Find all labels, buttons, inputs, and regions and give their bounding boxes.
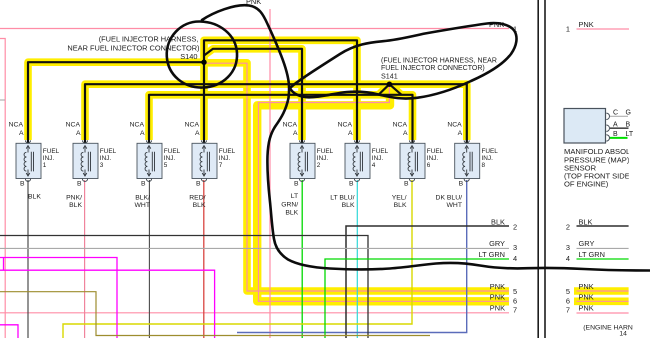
wire PNK highlight right page row6 xyxy=(574,297,629,305)
arrow down xyxy=(148,170,150,175)
coil xyxy=(145,152,147,171)
wire PNK/BLK injector3 B wire xyxy=(84,180,86,338)
svg-text:BLK: BLK xyxy=(193,202,206,209)
svg-text:RED/: RED/ xyxy=(189,195,205,202)
svg-text:4: 4 xyxy=(513,254,517,263)
pin B notch xyxy=(409,179,414,182)
wire LT BLU/BLK injector4 B wire xyxy=(356,180,358,338)
wire PNK highlight S140 up to injector4 xyxy=(204,40,357,140)
arrow up xyxy=(411,147,413,152)
svg-text:3: 3 xyxy=(100,162,104,169)
wire BLK MAP pin A xyxy=(610,127,629,129)
pin B notch xyxy=(82,179,87,182)
svg-text:PNK: PNK xyxy=(490,282,505,291)
svg-text:NEAR FUEL INJECTOR CONNECTOR): NEAR FUEL INJECTOR CONNECTOR) xyxy=(67,43,199,52)
arrow down xyxy=(203,170,205,175)
scan edge mask right page xyxy=(629,145,650,190)
svg-text:PNK/: PNK/ xyxy=(66,195,82,202)
wire LT GRN row 4 right page xyxy=(577,258,629,260)
fuel injector 8 xyxy=(447,122,498,188)
svg-text:BLK: BLK xyxy=(394,202,407,209)
svg-text:14: 14 xyxy=(619,330,627,337)
svg-text:PNK: PNK xyxy=(490,304,505,313)
wire PNK highlight S141 drop to row6 xyxy=(257,88,509,301)
wire PNK highlight S141 splice diagonals xyxy=(379,84,402,95)
svg-text:A: A xyxy=(19,130,24,137)
wire PNK from S141 to row 6 xyxy=(259,86,510,301)
fuel injector 2 xyxy=(283,122,334,188)
svg-text:B: B xyxy=(141,181,146,188)
arrow up xyxy=(356,147,358,152)
wire PNK row 7 right page xyxy=(577,312,629,314)
wire magenta H3 bottom left corner xyxy=(0,325,18,338)
svg-text:NCA: NCA xyxy=(185,122,200,129)
svg-text:A: A xyxy=(195,130,200,137)
svg-text:B: B xyxy=(459,181,464,188)
wire PNK highlight injector5 bus to injector8 xyxy=(149,95,413,140)
pin B notch xyxy=(464,179,469,182)
svg-text:B: B xyxy=(349,181,354,188)
wire PNK from S140 to row 5 xyxy=(204,63,509,291)
wire GRY row 3 left page xyxy=(0,247,509,249)
wire RED/BLK injector7 B wire xyxy=(203,180,205,338)
wire DK BLU/WHT injector8 B wire xyxy=(237,180,467,333)
pin A notch xyxy=(354,140,359,143)
svg-text:INJ.: INJ. xyxy=(219,155,231,162)
svg-text:NCA: NCA xyxy=(283,122,298,129)
pin B notch xyxy=(146,179,151,182)
svg-text:INJ.: INJ. xyxy=(427,155,439,162)
wire GRY stub left edge xyxy=(0,99,5,101)
wire GRY MAP pin C xyxy=(610,115,628,117)
arrow up xyxy=(301,147,303,152)
arrow down xyxy=(84,170,86,175)
svg-text:5: 5 xyxy=(566,287,570,296)
wire PNK left feed vertical with stub xyxy=(0,39,5,338)
wire YEL/BLK injector6 B wire xyxy=(63,180,412,338)
annotation long squiggle tail across page xyxy=(202,5,650,270)
wire trace injector3 to S141 xyxy=(85,84,467,143)
svg-text:PNK: PNK xyxy=(579,20,594,29)
pin A notch xyxy=(82,140,87,143)
pin B notch xyxy=(354,179,359,182)
svg-text:5: 5 xyxy=(164,162,168,169)
svg-text:B: B xyxy=(20,181,25,188)
wire trace S141 splice diagonals xyxy=(379,84,402,95)
svg-text:B: B xyxy=(404,181,409,188)
coil xyxy=(353,152,355,171)
core lines xyxy=(470,152,472,172)
wire LT GRN/BLK injector2 B wire xyxy=(301,180,303,338)
svg-text:BLK: BLK xyxy=(342,202,355,209)
pin A notch xyxy=(464,140,469,143)
svg-text:INJ.: INJ. xyxy=(100,155,112,162)
coil xyxy=(298,152,300,171)
wire BLK row 2 right page xyxy=(577,225,629,227)
svg-text:BLK: BLK xyxy=(69,202,82,209)
core lines xyxy=(415,152,417,172)
coil xyxy=(81,152,83,171)
svg-text:5: 5 xyxy=(513,287,517,296)
coil xyxy=(24,152,26,171)
pin B notch xyxy=(201,179,206,182)
pin A notch xyxy=(25,140,30,143)
MAP sensor box xyxy=(564,109,610,144)
wire PNK row 1 left page xyxy=(0,28,509,30)
svg-text:PNK: PNK xyxy=(490,293,505,302)
svg-text:YEL/: YEL/ xyxy=(392,195,407,202)
wire magenta link vertical left edge xyxy=(3,258,5,271)
MAP pin B arc xyxy=(606,135,609,141)
svg-text:NCA: NCA xyxy=(338,122,353,129)
annotation loop around S141 label xyxy=(290,23,517,98)
pin B notch xyxy=(299,179,304,182)
arrow down xyxy=(466,170,468,175)
fuel injector 7 xyxy=(185,122,236,188)
svg-text:3: 3 xyxy=(513,243,517,252)
svg-text:GRY: GRY xyxy=(489,239,505,248)
fuel injector 6 xyxy=(393,122,444,188)
coil xyxy=(200,152,202,171)
wire BLK horizontal y235 with drop xyxy=(0,236,368,338)
svg-text:A: A xyxy=(403,130,408,137)
svg-text:LT GRN: LT GRN xyxy=(579,250,605,259)
page border double line xyxy=(538,0,545,338)
svg-text:6: 6 xyxy=(566,296,570,305)
svg-text:4: 4 xyxy=(372,162,376,169)
svg-text:B: B xyxy=(626,122,631,129)
annotation ellipse around S140 xyxy=(167,21,237,87)
pin A notch xyxy=(299,140,304,143)
coil xyxy=(408,152,410,171)
svg-text:C: C xyxy=(613,110,618,117)
svg-text:LT GRN: LT GRN xyxy=(479,250,505,259)
core lines xyxy=(360,152,362,172)
coil xyxy=(463,152,465,171)
wire PNK row 1 right page xyxy=(577,28,630,30)
svg-text:LT: LT xyxy=(291,193,298,200)
arrow down xyxy=(301,170,303,175)
pin B notch xyxy=(25,179,30,182)
svg-text:BLK: BLK xyxy=(285,210,298,217)
svg-text:A: A xyxy=(458,130,463,137)
svg-text:BLK/: BLK/ xyxy=(135,195,150,202)
wire PNK highlight S140 diagonal to injector2 xyxy=(204,49,302,140)
wire PNK row 5 right page xyxy=(577,290,629,292)
svg-text:A: A xyxy=(140,130,145,137)
wire PNK row 7 left page xyxy=(0,312,509,314)
arrow down xyxy=(356,170,358,175)
svg-text:NCA: NCA xyxy=(447,122,462,129)
pin A notch xyxy=(409,140,414,143)
core lines xyxy=(88,152,90,172)
svg-text:(FUEL INJECTOR HARNESS, NEAR: (FUEL INJECTOR HARNESS, NEAR xyxy=(381,58,497,65)
svg-text:4: 4 xyxy=(566,254,570,263)
core lines xyxy=(31,152,33,172)
svg-text:7: 7 xyxy=(566,305,570,314)
svg-text:PNK: PNK xyxy=(579,293,594,302)
node S141 splice dot xyxy=(387,82,392,87)
svg-text:2: 2 xyxy=(566,222,570,231)
svg-text:S140: S140 xyxy=(180,52,197,61)
svg-text:7: 7 xyxy=(513,305,517,314)
svg-text:GRY: GRY xyxy=(579,239,595,248)
freehand pen annotations xyxy=(167,5,650,270)
wire PNK highlight injector1 riser and bus to S140 xyxy=(28,62,204,140)
svg-text:(FUEL INJECTOR HARNESS,: (FUEL INJECTOR HARNESS, xyxy=(99,35,199,44)
wire GRY row 3 right page xyxy=(577,247,629,249)
svg-text:B: B xyxy=(294,181,299,188)
pin A notch xyxy=(201,140,206,143)
svg-text:BLK: BLK xyxy=(491,218,505,227)
highlighter group xyxy=(28,40,629,301)
svg-text:B: B xyxy=(196,181,201,188)
wire DK YEL olive run xyxy=(0,292,430,336)
wire PNK highlight injector7 riser xyxy=(200,62,208,140)
wire PNK highlight right page row5 xyxy=(574,287,629,295)
pin A notch xyxy=(146,140,151,143)
svg-text:A: A xyxy=(348,130,353,137)
fuel injector 4 xyxy=(338,122,389,188)
wire PNK highlight S140 drop to row5 xyxy=(206,63,509,291)
svg-text:6: 6 xyxy=(427,162,431,169)
wire magenta H1 with drop at x117 xyxy=(0,258,117,338)
arrow up xyxy=(84,147,86,152)
wire trace S140 diagonal branch to injector2 xyxy=(204,49,302,143)
svg-text:6: 6 xyxy=(513,296,517,305)
svg-text:GRN/: GRN/ xyxy=(281,202,298,209)
svg-text:NCA: NCA xyxy=(9,122,24,129)
wire BLK injector1 B wire xyxy=(27,180,29,338)
svg-text:LT BLU/: LT BLU/ xyxy=(330,195,354,202)
wire PNK top vertical from PNK label xyxy=(269,9,271,338)
svg-text:INJ.: INJ. xyxy=(317,155,329,162)
arrow down xyxy=(27,170,29,175)
svg-text:3: 3 xyxy=(566,243,570,252)
svg-text:8: 8 xyxy=(482,162,486,169)
svg-text:NCA: NCA xyxy=(66,122,81,129)
svg-text:INJ.: INJ. xyxy=(43,155,55,162)
fuel injector 5 xyxy=(130,122,181,188)
wire LT GRN row 4 left page with drop xyxy=(325,259,509,338)
pen traced circuit group xyxy=(28,40,467,143)
svg-text:WHT: WHT xyxy=(135,202,150,209)
svg-text:2: 2 xyxy=(317,162,321,169)
wire magenta H2 with drop at x215 xyxy=(0,270,215,338)
wire PNK row 6 right page xyxy=(577,300,629,302)
arrow up xyxy=(203,147,205,152)
svg-text:PNK: PNK xyxy=(579,304,594,313)
wire BLK row 2 left page with drop xyxy=(346,226,509,338)
svg-text:BLK: BLK xyxy=(28,194,41,201)
svg-text:DK BLU/: DK BLU/ xyxy=(436,195,463,202)
svg-text:A: A xyxy=(76,130,81,137)
core lines xyxy=(305,152,307,172)
core lines xyxy=(207,152,209,172)
wire BLK/WHT injector5 B wire xyxy=(148,180,150,338)
svg-text:B: B xyxy=(77,181,82,188)
arrow up xyxy=(27,147,29,152)
core lines xyxy=(152,152,154,172)
svg-text:LT: LT xyxy=(626,131,634,138)
svg-text:INJ.: INJ. xyxy=(482,155,494,162)
arrow down xyxy=(411,170,413,175)
svg-text:A: A xyxy=(613,122,618,129)
svg-text:B: B xyxy=(613,131,618,138)
svg-text:WHT: WHT xyxy=(447,202,462,209)
fuel injector 3 xyxy=(66,122,117,188)
wire PNK highlight injector3 riser and bus to S141 xyxy=(85,84,467,140)
svg-text:1: 1 xyxy=(566,25,570,34)
svg-text:2: 2 xyxy=(513,222,517,231)
svg-text:A: A xyxy=(293,130,298,137)
wire trace injector7 riser to S140 xyxy=(203,62,205,143)
svg-text:PNK: PNK xyxy=(579,282,594,291)
fuel injector components xyxy=(9,122,499,188)
wire LT GRN MAP pin B xyxy=(609,137,628,139)
node S140 splice dot xyxy=(201,60,206,65)
wire trace injector5 bus to injector8 xyxy=(149,95,413,143)
svg-text:G: G xyxy=(626,110,631,117)
svg-text:NCA: NCA xyxy=(393,122,408,129)
svg-text:1: 1 xyxy=(43,162,47,169)
MAP pin A arc xyxy=(606,125,609,131)
MAP pin C arc xyxy=(606,113,609,119)
wire trace injector1 to S140 xyxy=(28,62,204,143)
fuel injector 1 xyxy=(9,122,60,188)
arrow up xyxy=(148,147,150,152)
svg-text:INJ.: INJ. xyxy=(372,155,384,162)
svg-text:INJ.: INJ. xyxy=(164,155,176,162)
svg-text:BLK: BLK xyxy=(579,218,593,227)
svg-text:7: 7 xyxy=(219,162,223,169)
svg-text:S141: S141 xyxy=(381,72,398,81)
svg-text:OF ENGINE): OF ENGINE) xyxy=(564,180,609,189)
arrow up xyxy=(466,147,468,152)
svg-text:NCA: NCA xyxy=(130,122,145,129)
wire trace S140 up and over to injector4 xyxy=(204,40,357,143)
